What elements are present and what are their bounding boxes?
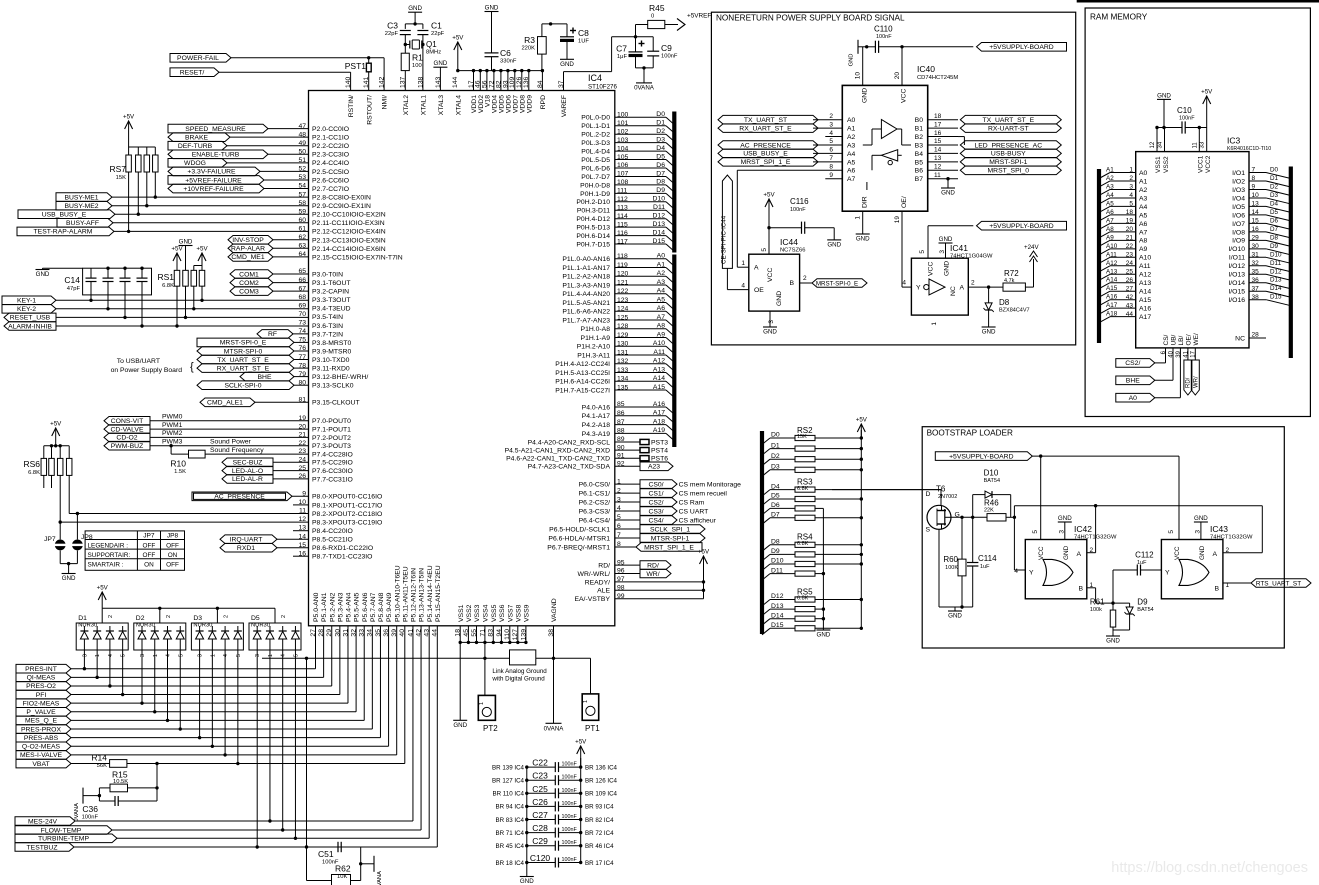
svg-text:BOOTSTRAP LOADER: BOOTSTRAP LOADER (927, 429, 1013, 438)
svg-text:9: 9 (829, 172, 833, 179)
power +5V above cap bank (575, 739, 587, 768)
label Sound Power / Sound Frequency (210, 439, 264, 455)
capacitor C28 100nF (495, 823, 614, 838)
svg-text:A3: A3 (657, 279, 666, 286)
wire cap bank right rail (579, 758, 582, 864)
svg-text:QI-MEAS: QI-MEAS (27, 675, 56, 682)
diode array D2 NUR30 (134, 608, 186, 730)
svg-text:A4: A4 (847, 151, 856, 158)
component PST4 (615, 448, 668, 455)
svg-text:P8.7-TXD1-CC23IO: P8.7-TXD1-CC23IO (312, 554, 372, 561)
svg-text:3: 3 (939, 250, 946, 254)
svg-text:A5: A5 (847, 159, 856, 166)
svg-text:P6.7-BREQ/-MRST1: P6.7-BREQ/-MRST1 (547, 544, 610, 551)
svg-text:B: B (1214, 586, 1219, 593)
svg-text:I/O3: I/O3 (1232, 187, 1245, 194)
svg-text:Q1: Q1 (426, 40, 437, 49)
svg-text:VSS4: VSS4 (483, 604, 490, 622)
wire cap bank left rail (525, 765, 528, 874)
svg-text:GND: GND (944, 261, 951, 276)
svg-text:4: 4 (108, 654, 114, 657)
node MTSR-SPI-1 tag (615, 534, 705, 543)
test point PT2 (478, 658, 498, 733)
svg-text:GND: GND (856, 236, 870, 243)
svg-text:USB-BUSY: USB-BUSY (991, 151, 1026, 158)
ground above C6 (485, 5, 499, 12)
svg-text:PRES-PROX: PRES-PROX (21, 726, 62, 733)
IC4 left pin names and numbers (298, 123, 402, 561)
svg-text:CD74HCT245M: CD74HCT245M (917, 75, 958, 81)
node PRES-O2 tag and wire to P5 pin (16, 626, 332, 690)
svg-text:LEGENDAIR :: LEGENDAIR : (88, 542, 129, 549)
wire link analog ground branch (483, 642, 509, 660)
svg-text:P0H.2-D10: P0H.2-D10 (576, 199, 610, 206)
svg-text:DIR: DIR (862, 196, 869, 208)
svg-text:GND: GND (1058, 515, 1072, 522)
wire IC3 power pins (1155, 126, 1206, 152)
svg-text:P5.1-AN1: P5.1-AN1 (321, 592, 328, 622)
svg-text:A7: A7 (1106, 217, 1114, 224)
svg-text:BR 18 IC4: BR 18 IC4 (495, 860, 524, 867)
wire T6 source to ground rail (939, 529, 973, 607)
node MRST_SPI_0 tag (960, 166, 1061, 175)
svg-text:IC40: IC40 (917, 64, 935, 74)
svg-text:D13: D13 (1270, 277, 1282, 284)
svg-text:2: 2 (829, 113, 833, 120)
svg-text:P5.14-AN14-T4EU: P5.14-AN14-T4EU (427, 565, 434, 622)
svg-text:P6.1-CS1/: P6.1-CS1/ (579, 490, 610, 497)
svg-text:P0L.7-D7: P0L.7-D7 (581, 174, 610, 181)
svg-text:A6: A6 (847, 168, 856, 175)
svg-text:3: 3 (255, 654, 261, 657)
svg-text:B7: B7 (915, 176, 924, 183)
ground above RS1 middle (179, 239, 193, 266)
jumper JP8 (71, 514, 93, 564)
svg-text:P2.15-CC15IOIO-EX7IN-T7IN: P2.15-CC15IOIO-EX7IN-T7IN (312, 254, 403, 261)
svg-text:5: 5 (761, 248, 768, 252)
power +5V right of IC4 (698, 549, 710, 571)
svg-text:100nF: 100nF (562, 775, 578, 781)
IC40 pin labels (847, 88, 923, 208)
wire R46 node long line to IC43 A (1014, 504, 1262, 553)
node BUSY-ME1 tag (56, 193, 112, 202)
svg-text:100nF: 100nF (661, 54, 678, 60)
IC43 74HCT1G32GW body (1161, 524, 1253, 599)
ground above IC43 (1194, 515, 1208, 540)
svg-text:GND: GND (827, 241, 841, 248)
svg-text:I/O16: I/O16 (1228, 297, 1245, 304)
svg-text:BUSY-ME2: BUSY-ME2 (64, 203, 98, 210)
resistor R46 22K (984, 499, 1016, 522)
svg-text:PST1: PST1 (345, 61, 367, 71)
svg-text:A17: A17 (653, 410, 665, 417)
svg-text:A23: A23 (648, 464, 660, 471)
svg-text:VSS2: VSS2 (466, 604, 473, 622)
node MES_Q_E tag and wire to P5 pin (16, 626, 364, 725)
component PST3 (615, 439, 668, 446)
svg-text:PST4: PST4 (651, 448, 668, 455)
capacitor C27 100nF (495, 810, 614, 825)
capacitor C3 22pF (385, 21, 411, 54)
svg-text:A0: A0 (1139, 170, 1148, 177)
svg-text:A18: A18 (653, 418, 665, 425)
svg-text:VSS5: VSS5 (491, 604, 498, 622)
IC4 ST10F276 microcontroller body (309, 91, 615, 626)
svg-text:P5.7-AN7: P5.7-AN7 (370, 592, 377, 622)
svg-text:TX_UART_ST: TX_UART_ST (744, 117, 787, 124)
svg-text:GND: GND (941, 190, 955, 197)
svg-text:6: 6 (829, 147, 833, 154)
svg-text:OE/: OE/ (1186, 334, 1193, 345)
svg-text:SPEED_MEASURE: SPEED_MEASURE (185, 126, 246, 133)
svg-text:22pF: 22pF (431, 31, 445, 37)
svg-text:D3: D3 (1270, 192, 1279, 199)
svg-text:C28: C28 (532, 823, 548, 833)
svg-text:3: 3 (768, 320, 775, 324)
svg-text:BZX84C4V7: BZX84C4V7 (999, 308, 1030, 314)
svg-text:P1H.0-A8: P1H.0-A8 (581, 326, 611, 333)
svg-text:IC41: IC41 (950, 243, 968, 253)
svg-text:LED-AL-O: LED-AL-O (232, 468, 263, 475)
svg-text:P0L.3-D3: P0L.3-D3 (581, 140, 610, 147)
svg-text:NONERETURN POWER SUPPLY BOARD: NONERETURN POWER SUPPLY BOARD SIGNAL (716, 14, 905, 23)
svg-text:P7.1-POUT1: P7.1-POUT1 (312, 427, 351, 434)
svg-text:TX_UART_ST_E: TX_UART_ST_E (217, 357, 269, 364)
svg-text:D14: D14 (1270, 285, 1282, 292)
wire GND drop from VSS rail (459, 642, 461, 720)
capacitor C22 100nF (492, 758, 618, 773)
svg-text:3: 3 (82, 654, 88, 657)
svg-text:P0L.2-D2: P0L.2-D2 (581, 132, 610, 139)
power +5V above RS6 (50, 421, 62, 448)
svg-text:SCLK-SPI-0: SCLK-SPI-0 (224, 383, 261, 390)
IC41 74HCT1G04GW body (911, 243, 993, 315)
svg-text:A12: A12 (653, 358, 665, 365)
svg-text:BR 82 IC4: BR 82 IC4 (585, 817, 614, 824)
svg-text:BUSY-AFF: BUSY-AFF (66, 220, 99, 227)
svg-text:POWER-FAIL: POWER-FAIL (177, 55, 219, 62)
resistor network RS7 15K (109, 147, 158, 181)
svg-text:P3.7-T2IN: P3.7-T2IN (312, 331, 343, 338)
IC4 bottom pin names and numbers (310, 565, 558, 640)
svg-text:PWM2: PWM2 (162, 430, 183, 437)
svg-text:P0L.4-D4: P0L.4-D4 (581, 149, 610, 156)
svg-text:MRST-SPI-1: MRST-SPI-1 (989, 159, 1027, 166)
node COM1 tag (230, 270, 273, 279)
svg-text:GND: GND (1194, 515, 1208, 522)
svg-text:A7: A7 (657, 314, 666, 321)
svg-text:1: 1 (583, 700, 589, 703)
svg-text:VSS6: VSS6 (499, 604, 506, 622)
power +5V above IC44 (763, 192, 775, 255)
svg-text:P2.11-CC11IOIO-EX3IN: P2.11-CC11IOIO-EX3IN (312, 220, 385, 227)
svg-text:DEF-TURB: DEF-TURB (178, 143, 213, 150)
svg-text:CE-SPI-PIC-IC44: CE-SPI-PIC-IC44 (721, 215, 728, 264)
node A0 tag ram (1116, 348, 1181, 402)
svg-text:+5V: +5V (97, 585, 109, 592)
svg-text:A17: A17 (1139, 314, 1151, 321)
svg-text:A10: A10 (1139, 255, 1151, 262)
node +5VSUPPLY-BOARD tag mid (977, 221, 1067, 230)
svg-text:11: 11 (1192, 142, 1198, 149)
svg-text:I/O2: I/O2 (1232, 178, 1245, 185)
svg-text:A9: A9 (1106, 234, 1114, 241)
svg-text:+5V: +5V (1201, 89, 1213, 96)
ground left of C110 (849, 40, 862, 67)
svg-text:2: 2 (1226, 547, 1230, 554)
svg-text:8: 8 (829, 163, 833, 170)
svg-text:7: 7 (829, 155, 833, 162)
svg-text:P7.5-CC29IO: P7.5-CC29IO (312, 460, 353, 467)
svg-text:ALE: ALE (597, 588, 610, 595)
svg-text:P7.2-POUT2: P7.2-POUT2 (312, 435, 351, 442)
svg-text:P2.10-CC10IOIO-EX2IN: P2.10-CC10IOIO-EX2IN (312, 212, 386, 219)
svg-text:P8.1-XPOUT1-CC17IO: P8.1-XPOUT1-CC17IO (312, 502, 382, 509)
svg-text:GND: GND (948, 613, 962, 620)
svg-text:TESTBUZ: TESTBUZ (27, 844, 58, 851)
capacitor C14 47pF array (64, 267, 151, 328)
svg-text:C10: C10 (1177, 106, 1192, 115)
svg-text:GND: GND (520, 878, 534, 885)
svg-text:A12: A12 (1106, 260, 1118, 267)
wire RS1 to KEY rows (175, 291, 203, 328)
wire D6 D11 D13 D14 to GND rail (822, 508, 824, 630)
svg-text:XTAL4: XTAL4 (455, 95, 462, 115)
svg-text:D11: D11 (1270, 260, 1282, 267)
svg-text:VCC: VCC (928, 262, 935, 276)
svg-text:RSTIN/: RSTIN/ (348, 95, 355, 117)
svg-text:VCC: VCC (1038, 546, 1045, 560)
svg-text:P0H.1-D9: P0H.1-D9 (580, 191, 610, 198)
wire B2 vertical to B3 row (958, 137, 964, 145)
svg-text:D6: D6 (656, 162, 665, 169)
svg-text:C6: C6 (500, 48, 511, 58)
svg-text:OFF: OFF (166, 562, 179, 569)
component link analog-digital ground box (491, 650, 547, 682)
svg-text:BR 93 IC4: BR 93 IC4 (585, 804, 614, 811)
capacitor C7 1uF polarized (616, 37, 644, 68)
wire RS7 pulldowns to BUSY rows (127, 180, 157, 233)
svg-text:P5.6-AN6: P5.6-AN6 (362, 592, 369, 622)
svg-text:A5: A5 (1106, 200, 1114, 207)
node USB_BUSY_E tag (18, 210, 115, 219)
diode array D1 NUR30 (76, 608, 128, 696)
svg-text:CS4/: CS4/ (648, 517, 663, 524)
node RX_UART_ST_E tag (197, 364, 294, 373)
node CS4/ tag (615, 516, 717, 525)
ground 0VANA left of C36 (74, 788, 99, 822)
svg-text:19: 19 (894, 216, 901, 224)
svg-text:VSS3: VSS3 (474, 604, 481, 622)
svg-text:ON: ON (168, 552, 178, 559)
svg-text:on Power Supply Board: on Power Supply Board (111, 367, 183, 374)
wire T6 gate node (951, 495, 987, 557)
svg-text:P1L.2-A2-AN18: P1L.2-A2-AN18 (562, 274, 610, 281)
svg-text:D9: D9 (1137, 598, 1148, 607)
svg-text:P4.0-A16: P4.0-A16 (582, 404, 611, 411)
svg-text:MES-I-VALVE: MES-I-VALVE (20, 752, 63, 759)
svg-text:A3: A3 (847, 142, 856, 149)
svg-text:A6: A6 (657, 305, 666, 312)
wire analog ground link horizontal (262, 657, 485, 847)
svg-text:C27: C27 (532, 810, 548, 820)
node RAP-ALAR tag (228, 244, 273, 253)
svg-text:CS2/: CS2/ (648, 499, 663, 506)
capacitor C6 330nF (485, 12, 517, 71)
svg-text:A19: A19 (653, 427, 665, 434)
node Q-O2-MEAS tag and wire to P5 pin (16, 626, 389, 751)
svg-text:VCC: VCC (1174, 546, 1181, 560)
svg-text:3: 3 (829, 121, 833, 128)
svg-text:P5.2-AN2: P5.2-AN2 (329, 592, 336, 622)
svg-text:D0: D0 (656, 111, 665, 118)
resistor network RS1 6.8K (157, 266, 204, 292)
svg-text:OFF: OFF (143, 542, 156, 549)
svg-text:5: 5 (178, 654, 184, 657)
svg-text:BUSY-ME1: BUSY-ME1 (64, 194, 98, 201)
svg-text:P8.2-XPOUT2-CC18IO: P8.2-XPOUT2-CC18IO (312, 511, 382, 518)
node RESET/ tag (170, 68, 219, 77)
capacitor C26 100nF (495, 797, 614, 812)
svg-text:D4: D4 (656, 145, 665, 152)
svg-text:100nF: 100nF (562, 762, 578, 768)
svg-text:2: 2 (803, 275, 807, 282)
svg-text:B: B (789, 280, 794, 287)
wire IC3 data pins (1228, 167, 1290, 306)
svg-text:ON: ON (144, 562, 154, 569)
node CS2/ tag (1116, 348, 1166, 367)
svg-text:P1L.7-A7-AN23: P1L.7-A7-AN23 (562, 317, 610, 324)
svg-text:CMD_ME1: CMD_ME1 (231, 254, 264, 261)
wire POWER-FAIL to NMI pin 142 (231, 58, 384, 91)
svg-text:T6: T6 (936, 485, 946, 494)
node FLOW-TEMP tag and wire to P5 pin (15, 626, 421, 835)
svg-text:2: 2 (166, 615, 172, 618)
svg-text:D13: D13 (653, 221, 666, 228)
svg-text:A15: A15 (653, 384, 665, 391)
ground near XTAL3 pin 143 (433, 60, 447, 67)
svg-text:2: 2 (223, 615, 229, 618)
wire D group pin lines with diagonals (615, 111, 675, 251)
jumper JP7 (44, 522, 66, 564)
svg-text:MRST_SPI_1_E: MRST_SPI_1_E (741, 159, 791, 166)
svg-text:A12: A12 (1139, 272, 1151, 279)
svg-text:1: 1 (268, 654, 274, 657)
svg-text:P5.13-AN13-T5IN: P5.13-AN13-T5IN (419, 568, 426, 622)
box NONERETURN POWER SUPPLY BOARD SIGNAL (711, 12, 1075, 345)
svg-text:SMARTAIR :: SMARTAIR : (88, 562, 124, 569)
svg-text:P5.8-AN8: P5.8-AN8 (378, 592, 385, 622)
svg-text:P7.4-CC28IO: P7.4-CC28IO (312, 451, 353, 458)
svg-text:P7.6-CC30IO: P7.6-CC30IO (312, 468, 353, 475)
svg-text:I/O9: I/O9 (1232, 238, 1245, 245)
svg-text:LB/: LB/ (1178, 336, 1185, 346)
capacitor C36 100nF (82, 764, 157, 821)
node PWM-BUZ tag (104, 441, 150, 450)
node MRST-SPI-0_E tag (197, 338, 294, 347)
svg-text:LED_PRESENCE_AC: LED_PRESENCE_AC (974, 142, 1042, 149)
svg-text:A1: A1 (847, 126, 856, 133)
wire IC40 VCC GND pins (855, 47, 903, 86)
svg-text:5: 5 (1032, 530, 1039, 534)
svg-text:A9: A9 (1139, 246, 1148, 253)
svg-text:WR/: WR/ (1193, 376, 1199, 388)
svg-text:NUR30: NUR30 (78, 623, 97, 629)
svg-text:D15: D15 (653, 238, 666, 245)
power +5V rail bootstrap-left (856, 417, 868, 629)
svg-text:KEY-1: KEY-1 (17, 298, 36, 305)
node TX_UART_ST tag (718, 115, 818, 124)
svg-text:P3.5-T4IN: P3.5-T4IN (312, 314, 343, 321)
svg-text:A6: A6 (1106, 209, 1114, 216)
svg-text:NC: NC (1235, 335, 1245, 342)
resistor R61 100k (1090, 598, 1116, 635)
svg-text:C51: C51 (318, 849, 334, 859)
svg-text:R10: R10 (170, 459, 186, 469)
svg-text:1: 1 (479, 702, 485, 705)
svg-text:C110: C110 (874, 25, 893, 34)
svg-text:BR 127 IC4: BR 127 IC4 (492, 778, 525, 785)
svg-text:A2: A2 (657, 270, 666, 277)
wire +5VSUPPLY to IC41 VCC (928, 226, 973, 259)
svg-text:B4: B4 (915, 151, 924, 158)
node RESET_USB tag (4, 313, 56, 322)
table JP7 JP8 configuration (85, 531, 184, 570)
svg-text:A3: A3 (1139, 195, 1148, 202)
node MRST-SPI-1 tag (960, 158, 1061, 167)
svg-text:1uF: 1uF (980, 564, 990, 570)
svg-text:VDD9: VDD9 (526, 95, 533, 113)
svg-text:BR 72 IC4: BR 72 IC4 (585, 830, 614, 837)
svg-text:B0: B0 (915, 117, 924, 124)
svg-text:+5V: +5V (698, 549, 710, 556)
svg-text:2: 2 (108, 615, 114, 618)
svg-text:C114: C114 (978, 554, 997, 563)
wire D4 line to T6 drain (832, 490, 941, 505)
node PRES-ABS tag and wire to P5 pin (16, 626, 380, 742)
svg-text:MES_Q_E: MES_Q_E (25, 718, 58, 725)
svg-text:P0H.4-D12: P0H.4-D12 (576, 216, 610, 223)
svg-text:RSTOUT/: RSTOUT/ (366, 95, 373, 125)
svg-text:P3.4-T3EUD: P3.4-T3EUD (312, 306, 351, 313)
svg-text:P2.5-CC5IO: P2.5-CC5IO (312, 169, 349, 176)
svg-text:D2: D2 (656, 128, 665, 135)
svg-text:A6: A6 (1139, 221, 1148, 228)
svg-text:RAM MEMORY: RAM MEMORY (1090, 13, 1148, 22)
capacitor C23 100nF (492, 771, 618, 786)
power +5V above diode arrays (97, 585, 109, 609)
ground below B7 (941, 177, 955, 196)
svg-text:RD/: RD/ (1186, 377, 1192, 388)
svg-text:VDD4: VDD4 (492, 95, 499, 113)
svg-text:C23: C23 (532, 771, 548, 781)
svg-text:BAT54: BAT54 (984, 478, 1000, 484)
svg-text:P2.3-CC3IO: P2.3-CC3IO (312, 152, 349, 159)
svg-text:BAT54: BAT54 (1137, 607, 1153, 613)
svg-text:P7.7-CC31IO: P7.7-CC31IO (312, 476, 353, 483)
svg-text:11: 11 (934, 172, 941, 179)
svg-text:0VANA: 0VANA (634, 85, 655, 92)
svg-text:GND: GND (862, 88, 869, 103)
svg-text:GND: GND (1157, 92, 1171, 99)
svg-text:PST3: PST3 (651, 440, 668, 447)
diode array D5 NUR30 (249, 608, 301, 848)
node BUSY-AFF tag (57, 219, 113, 228)
node RF tag (257, 330, 293, 339)
svg-text:Sound Power: Sound Power (210, 439, 252, 446)
svg-text:K6R4016C1D-TI10: K6R4016C1D-TI10 (1227, 146, 1271, 152)
svg-text:BHE: BHE (1126, 378, 1140, 385)
